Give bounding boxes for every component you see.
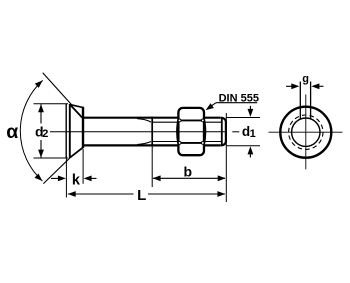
svg-text:α: α <box>6 121 18 143</box>
svg-text:k: k <box>72 173 81 189</box>
svg-text:L: L <box>137 187 146 204</box>
svg-text:g: g <box>302 73 309 85</box>
svg-text:1: 1 <box>250 128 256 140</box>
svg-text:b: b <box>184 164 193 180</box>
svg-text:2: 2 <box>42 128 48 140</box>
